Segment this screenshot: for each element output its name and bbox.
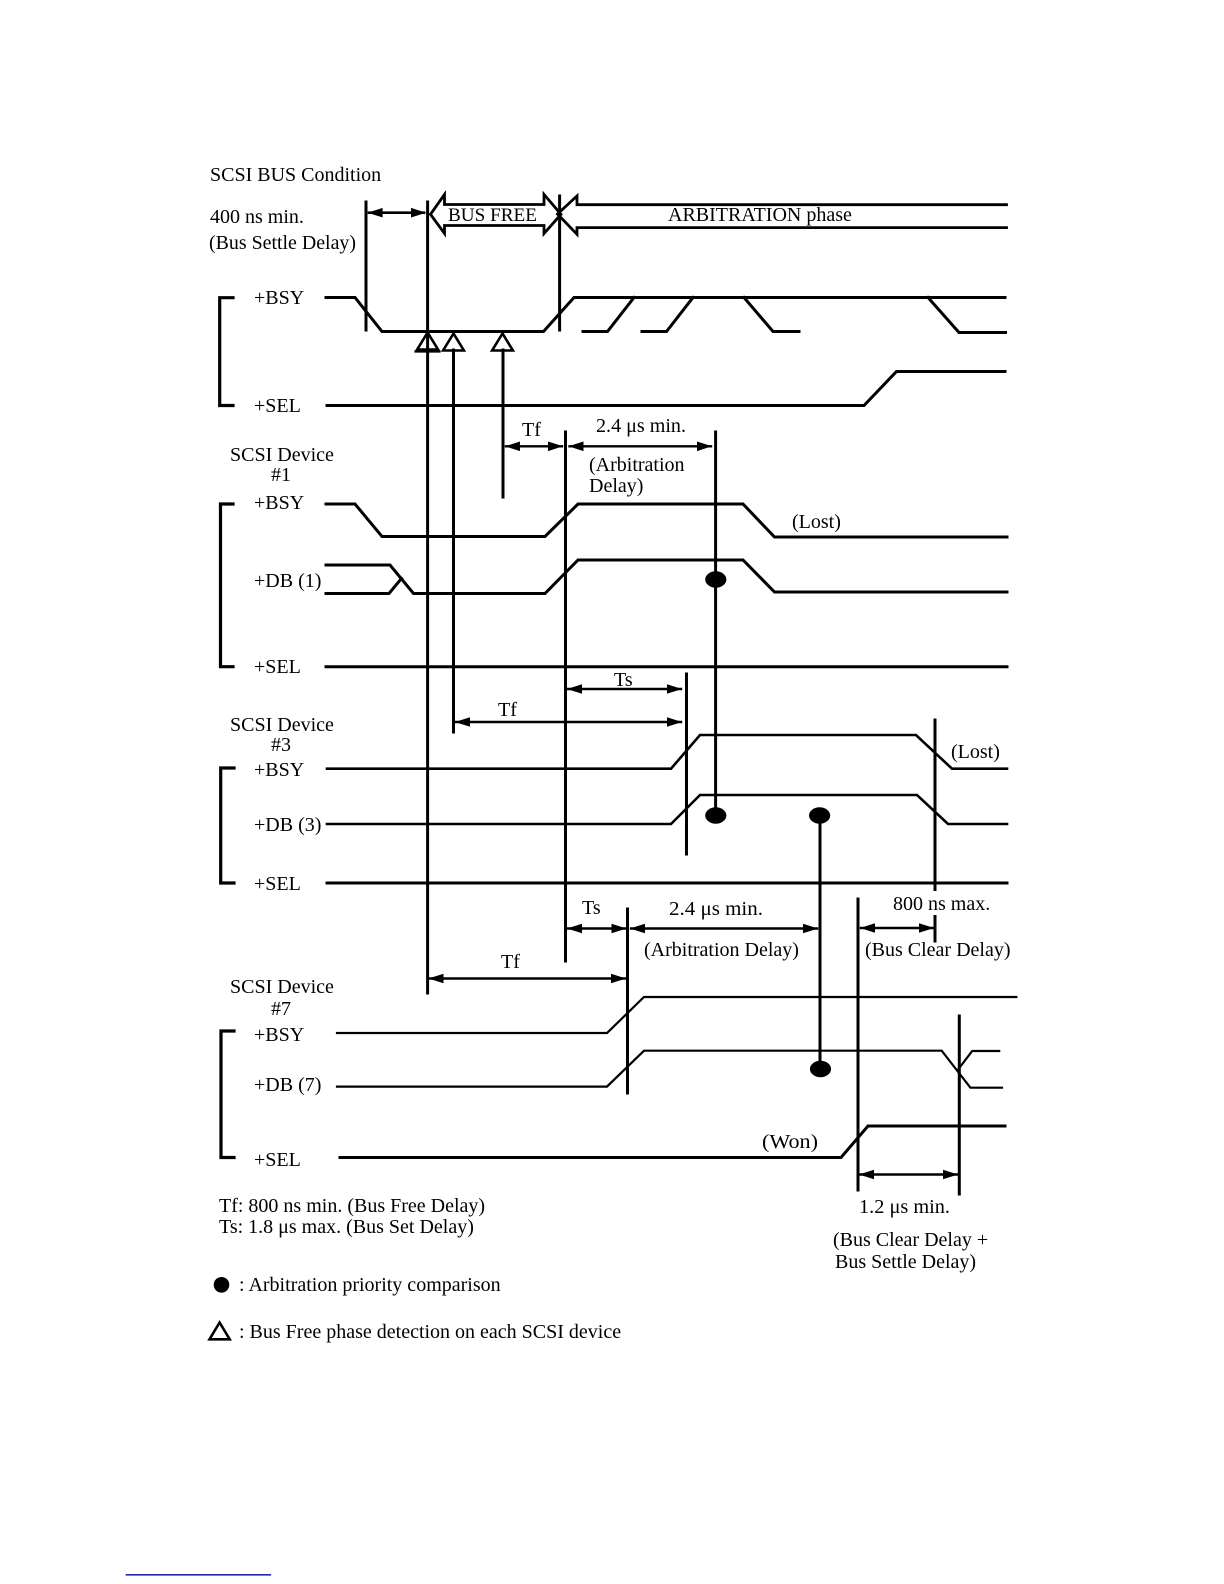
bracket: device 7 bbox=[221, 1031, 234, 1158]
svg-text:SCSI Device: SCSI Device bbox=[230, 976, 334, 998]
arrow: BUS FREE outline double arrow bbox=[431, 194, 562, 233]
wire: vertical marker V6 (dev1 assert) bbox=[564, 432, 567, 961]
arrow: Ts dev7 bbox=[568, 927, 626, 929]
waveform: dev7 +BSY bbox=[337, 997, 1016, 1033]
waveform: bus +SEL bbox=[327, 372, 1005, 406]
svg-text:#7: #7 bbox=[271, 998, 291, 1020]
waveform: bus +BSY main bbox=[326, 298, 1005, 332]
svg-text:+BSY: +BSY bbox=[254, 492, 304, 514]
symbol: priority comparison dot 1 on DB(3) bbox=[705, 807, 726, 823]
symbol: legend triangle bbox=[210, 1323, 230, 1340]
waveform: dev7 +SEL bbox=[340, 1126, 1005, 1158]
symbol: priority comparison dot on DB(1) bbox=[705, 571, 726, 587]
wire: vertical marker V10 (priority comparison) bbox=[819, 818, 822, 1066]
wire: vertical marker V7 (dev7 assert) bbox=[626, 909, 629, 1093]
arrow: Tf dev3 bbox=[456, 721, 681, 723]
symbol: bus-free detect triangle 3 bbox=[492, 334, 513, 351]
waveform: dev3 +BSY bbox=[327, 735, 1007, 769]
svg-text:Bus Settle Delay): Bus Settle Delay) bbox=[835, 1251, 976, 1273]
svg-text:2.4 μs min.: 2.4 μs min. bbox=[669, 898, 763, 920]
svg-text:(Lost): (Lost) bbox=[951, 741, 1000, 763]
wire: vertical shaft V3 (bus-free detect 2) bbox=[452, 350, 455, 732]
svg-text:+SEL: +SEL bbox=[254, 873, 301, 895]
svg-text:Delay): Delay) bbox=[589, 475, 643, 497]
svg-text:(Lost): (Lost) bbox=[792, 511, 841, 533]
svg-text:1.2 μs min.: 1.2 μs min. bbox=[859, 1196, 950, 1218]
symbol: legend dot bbox=[214, 1277, 230, 1293]
svg-text:+SEL: +SEL bbox=[254, 656, 301, 678]
svg-text:(Arbitration Delay): (Arbitration Delay) bbox=[644, 939, 799, 961]
svg-text:(Bus Clear Delay): (Bus Clear Delay) bbox=[865, 939, 1011, 961]
wire: vertical tick V12 (800ns end) bbox=[934, 720, 937, 890]
waveform: dev1 +DB(1) upper bbox=[326, 560, 1007, 594]
svg-text:+SEL: +SEL bbox=[254, 1149, 301, 1171]
waveform: bus +BSY glitch stub 1 bbox=[583, 298, 634, 332]
waveform: dev1 +SEL bbox=[326, 665, 1007, 668]
svg-text:800 ns max.: 800 ns max. bbox=[893, 893, 990, 915]
symbol: priority comparison dot on DB(7) bbox=[810, 1061, 831, 1077]
svg-text:SCSI Device: SCSI Device bbox=[230, 714, 334, 736]
svg-text:#3: #3 bbox=[271, 734, 291, 756]
svg-text:SCSI BUS Condition: SCSI BUS Condition bbox=[210, 164, 381, 186]
arrow: Tf dev1 bbox=[506, 445, 562, 447]
symbol: bus-free detect triangle 2 bbox=[443, 334, 464, 351]
svg-text:(Bus Clear Delay +: (Bus Clear Delay + bbox=[833, 1229, 988, 1251]
svg-text:#1: #1 bbox=[271, 464, 291, 486]
svg-text:(Arbitration: (Arbitration bbox=[589, 454, 685, 476]
svg-text:Tf: 800 ns min. (Bus Free Dela: Tf: 800 ns min. (Bus Free Delay) bbox=[219, 1195, 485, 1217]
svg-text:(Bus Settle Delay): (Bus Settle Delay) bbox=[209, 232, 356, 254]
waveform: dev1 +BSY bbox=[326, 504, 1007, 537]
svg-text:Tf: Tf bbox=[501, 951, 520, 973]
arrow: 400ns double arrow bbox=[369, 211, 424, 214]
arrow: 2.4us dev1 bbox=[570, 445, 712, 447]
svg-text:+DB (1): +DB (1) bbox=[254, 570, 321, 592]
waveform: dev1 +DB(1) lower crossover spur bbox=[326, 579, 402, 594]
svg-text:+BSY: +BSY bbox=[254, 1024, 304, 1046]
svg-text:+BSY: +BSY bbox=[254, 759, 304, 781]
decoration: blue footnote rule bbox=[127, 1574, 271, 1576]
svg-text:+DB (3): +DB (3) bbox=[254, 814, 321, 836]
svg-text:: Bus Free phase detection on: : Bus Free phase detection on each SCSI … bbox=[239, 1321, 621, 1343]
svg-text:(Won): (Won) bbox=[762, 1131, 818, 1153]
arrow: 2.4us dev7 bbox=[631, 927, 817, 929]
arrow: ARBITRATION phase outline arrow bbox=[558, 196, 1007, 234]
svg-text:SCSI Device: SCSI Device bbox=[230, 444, 334, 466]
symbol: bus-free detect triangle 1 bbox=[417, 333, 438, 350]
wire: vertical tick V8 (dev3 Ts end) bbox=[685, 674, 688, 854]
arrow: 800ns max bbox=[861, 927, 933, 929]
svg-text:400 ns min.: 400 ns min. bbox=[210, 206, 304, 228]
svg-text:Ts: Ts bbox=[582, 897, 601, 919]
arrow: Ts dev3 bbox=[568, 688, 681, 690]
wire: vertical shaft V2 (bus-free detect 1, long) bbox=[426, 202, 429, 993]
waveform: bus +BSY release stub 2 bbox=[928, 298, 1006, 333]
svg-text:Ts: 1.8 μs max. (Bus Set Delay: Ts: 1.8 μs max. (Bus Set Delay) bbox=[219, 1216, 474, 1238]
arrow: 1.2us min bbox=[860, 1173, 957, 1175]
waveform: dev3 +DB(3) bbox=[327, 795, 1007, 824]
symbol: priority comparison dot 2 on DB(3) bbox=[809, 807, 830, 823]
wire: vertical marker V9 (arbitration delay end dev1) bbox=[714, 432, 717, 811]
waveform: dev7 +DB(7) bbox=[337, 1051, 1002, 1088]
svg-text:Tf: Tf bbox=[522, 419, 541, 441]
wire: vertical marker V5 (bus free end) bbox=[558, 196, 561, 330]
waveform: dev7 +DB(7) crossover spur bbox=[959, 1051, 1000, 1069]
svg-text:+DB (7): +DB (7) bbox=[254, 1074, 321, 1096]
wire: vertical tick V11 (bus clear start) bbox=[857, 899, 860, 1190]
svg-text:BUS FREE: BUS FREE bbox=[448, 205, 537, 226]
svg-text:Ts: Ts bbox=[614, 669, 633, 691]
svg-text:: Arbitration priority compari: : Arbitration priority comparison bbox=[239, 1274, 501, 1296]
waveform: bus +BSY glitch stub 2 bbox=[642, 298, 693, 332]
waveform: dev3 +SEL bbox=[327, 882, 1007, 885]
bracket: device 3 bbox=[221, 768, 234, 883]
bracket: SCSI bus condition bbox=[220, 298, 233, 406]
bracket: device 1 bbox=[221, 504, 234, 667]
svg-text:+SEL: +SEL bbox=[254, 395, 301, 417]
waveform: bus +BSY release stub 1 bbox=[744, 298, 799, 332]
wire: vertical shaft V4 (bus-free detect 3) bbox=[502, 350, 505, 497]
svg-text:2.4 μs min.: 2.4 μs min. bbox=[596, 415, 686, 437]
svg-text:Tf: Tf bbox=[498, 699, 517, 721]
arrow: Tf dev7 bbox=[430, 977, 626, 979]
wire: vertical tick V13 (1.2us end) bbox=[958, 1016, 961, 1194]
wire: vertical marker V1 (400ns left) bbox=[365, 202, 368, 330]
svg-text:ARBITRATION phase: ARBITRATION phase bbox=[668, 204, 852, 226]
svg-text:+BSY: +BSY bbox=[254, 287, 304, 309]
